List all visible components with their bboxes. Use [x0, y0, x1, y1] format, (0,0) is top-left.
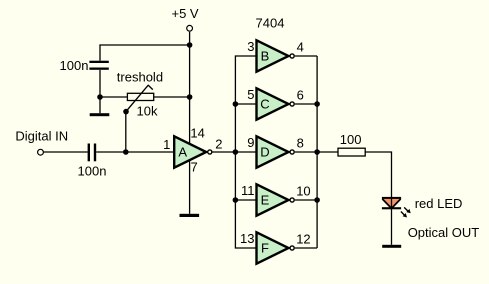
LED cathode bar — [382, 207, 401, 209]
wire C1 node to trimmer — [100, 96, 127, 98]
LED light arrow 2 — [401, 212, 407, 218]
svg-text:3: 3 — [247, 39, 254, 54]
capacitor C1 100n — [89, 61, 108, 70]
inverter U1D — [257, 136, 289, 167]
junction right bus C — [314, 101, 320, 107]
LED D1 — [382, 197, 401, 208]
capacitor C2 100n — [88, 144, 97, 162]
svg-text:7404: 7404 — [256, 15, 285, 30]
wire C1 to ground — [99, 70, 101, 113]
junction left bus C — [233, 101, 239, 107]
svg-text:10: 10 — [296, 183, 310, 198]
svg-text:C: C — [260, 97, 269, 112]
junction (100,97) — [97, 94, 103, 100]
wire R2 to LED — [365, 152, 391, 198]
wire input to C2 — [44, 151, 88, 153]
wire C in — [235, 103, 256, 105]
svg-text:4: 4 — [297, 39, 304, 54]
svg-text:E: E — [261, 193, 270, 208]
wire through LED — [391, 198, 393, 245]
LED light arrow 1 — [404, 207, 411, 213]
svg-text:14: 14 — [190, 126, 204, 141]
ground (LED) — [382, 245, 401, 248]
ground (C1) — [90, 113, 110, 116]
inverter U1E — [257, 184, 289, 215]
svg-text:B: B — [261, 49, 270, 64]
wire trimmer to rail — [154, 96, 190, 98]
junction (rail,97) — [187, 94, 193, 100]
wire right bus — [316, 56, 318, 248]
bubble C — [290, 102, 294, 106]
bubble D — [290, 150, 294, 154]
junction right bus D — [314, 149, 320, 155]
wire E in — [235, 199, 256, 201]
svg-text:100n: 100n — [60, 58, 89, 73]
wire left bus — [235, 56, 256, 248]
bubble E — [290, 198, 294, 202]
trimmer R1 wiper arrow — [126, 85, 153, 112]
wire wiper down — [125, 112, 127, 153]
svg-text:13: 13 — [240, 231, 254, 246]
wire D out — [295, 151, 317, 153]
svg-text:F: F — [261, 241, 269, 256]
svg-text:Digital IN: Digital IN — [15, 128, 68, 143]
wire top rail to C1 — [100, 45, 190, 61]
svg-text:100n: 100n — [78, 164, 107, 179]
svg-text:10k: 10k — [137, 104, 158, 119]
inverter U1C — [257, 88, 289, 119]
svg-text:7: 7 — [191, 160, 198, 175]
svg-text:D: D — [260, 145, 269, 160]
inverter U1B — [257, 40, 289, 71]
junction right bus E — [314, 197, 320, 203]
svg-text:9: 9 — [247, 135, 254, 150]
svg-text:A: A — [178, 145, 187, 160]
junction input node — [123, 149, 129, 155]
junction wiper — [123, 109, 129, 115]
svg-text:6: 6 — [297, 87, 304, 102]
junction left bus D — [233, 149, 239, 155]
svg-text:1: 1 — [163, 137, 170, 152]
wire +5V rail — [189, 32, 191, 144]
svg-text:treshold: treshold — [117, 70, 163, 85]
junction (rail,45) — [187, 42, 193, 48]
bubble F — [290, 246, 294, 250]
inverter U1A — [174, 136, 206, 167]
svg-text:2: 2 — [215, 137, 222, 152]
wire C out — [295, 103, 317, 105]
svg-text:12: 12 — [296, 231, 310, 246]
bubble B — [290, 54, 294, 58]
junction left bus E — [233, 197, 239, 203]
svg-text:11: 11 — [241, 183, 255, 198]
bubble A — [208, 150, 212, 154]
wire B out — [295, 55, 317, 57]
wire pin7 to ground — [189, 161, 191, 214]
svg-text:red LED: red LED — [415, 196, 463, 211]
wire A out to D in — [212, 151, 256, 153]
inverter U1F — [257, 232, 289, 263]
svg-text:+5 V: +5 V — [172, 6, 199, 21]
wire E out — [295, 199, 317, 201]
ground (U1A) — [180, 214, 200, 217]
terminal Digital IN — [38, 149, 44, 155]
svg-text:100: 100 — [340, 132, 362, 147]
svg-text:8: 8 — [297, 135, 304, 150]
svg-text:5: 5 — [247, 87, 254, 102]
trimmer R1 body — [127, 93, 153, 100]
resistor R2 body — [338, 148, 365, 156]
terminal +5V — [187, 25, 193, 31]
svg-text:Optical OUT: Optical OUT — [408, 225, 480, 240]
wire F out — [295, 247, 317, 249]
wire bus to R2 — [317, 151, 338, 153]
wire C2 to inverter A — [96, 151, 174, 153]
